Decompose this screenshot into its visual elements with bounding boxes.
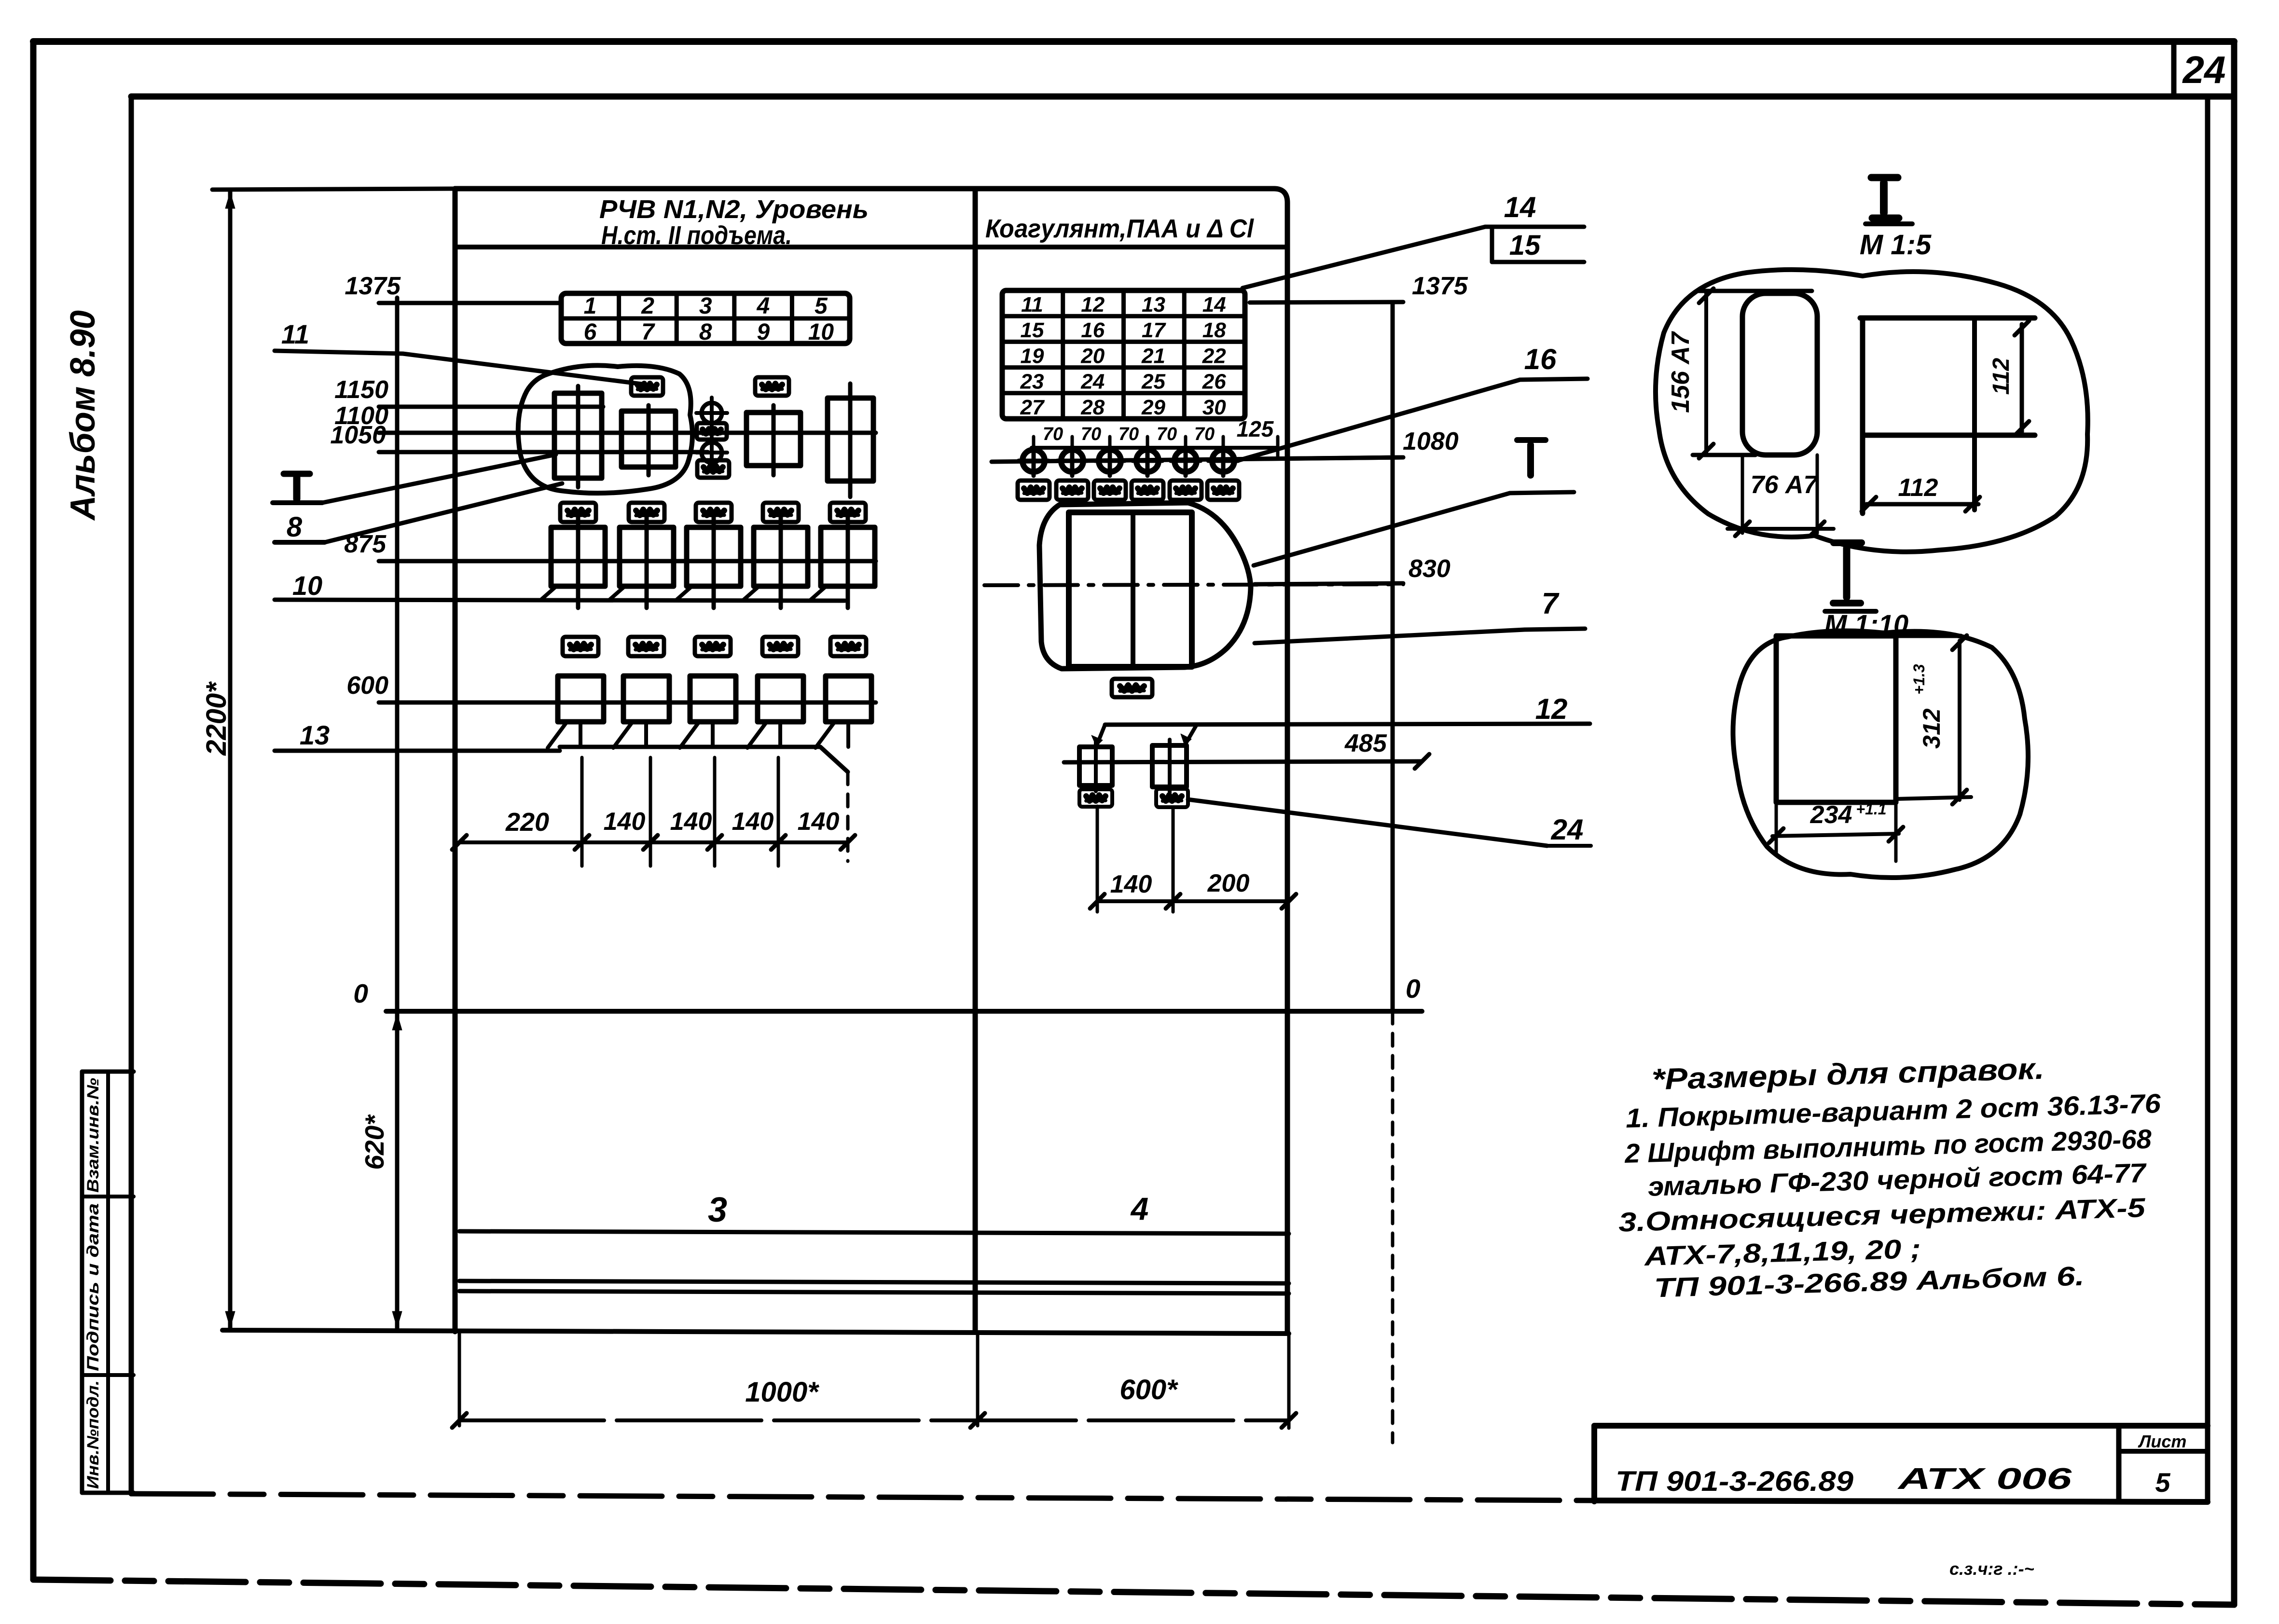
svg-text:140: 140 [604,808,646,836]
svg-text:70: 70 [1157,424,1177,444]
svg-text:4: 4 [756,293,770,319]
svg-text:+1.1: +1.1 [1856,800,1886,818]
svg-text:312: 312 [1918,708,1945,749]
svg-text:+1.3: +1.3 [1910,664,1928,694]
svg-text:12: 12 [1535,693,1568,725]
svg-text:70: 70 [1043,424,1063,444]
svg-text:16: 16 [1524,343,1557,375]
svg-text:234: 234 [1810,801,1852,829]
svg-text:26: 26 [1202,370,1226,394]
svg-text:24: 24 [2182,48,2226,91]
svg-text:220: 220 [505,808,549,837]
svg-text:13: 13 [1142,293,1165,317]
svg-text:17: 17 [1142,318,1166,342]
svg-text:112: 112 [1989,358,2014,395]
svg-text:70: 70 [1194,424,1215,444]
svg-text:140: 140 [1110,870,1152,898]
svg-text:4: 4 [1130,1191,1149,1226]
svg-text:140: 140 [670,808,712,836]
svg-text:29: 29 [1141,396,1165,419]
svg-text:0: 0 [1406,974,1421,1004]
svg-text:8: 8 [699,319,712,345]
svg-text:ТП 901-3-266.89: ТП 901-3-266.89 [1616,1466,1853,1497]
svg-text:Взам.инв.№: Взам.инв.№ [84,1078,102,1193]
svg-text:11: 11 [281,319,309,349]
svg-text:156 А7: 156 А7 [1667,331,1695,413]
svg-text:25: 25 [1141,370,1165,394]
svg-text:1375: 1375 [1412,272,1468,300]
svg-text:5: 5 [815,293,828,319]
svg-text:Альбом 8.90: Альбом 8.90 [64,310,102,521]
svg-text:3: 3 [708,1191,727,1229]
svg-text:РЧВ N1,N2, Уровень: РЧВ N1,N2, Уровень [599,195,869,224]
svg-text:24: 24 [1551,813,1584,846]
svg-text:Инв.№подл.: Инв.№подл. [84,1380,102,1489]
svg-text:70: 70 [1119,424,1139,444]
svg-text:1: 1 [584,293,597,319]
svg-text:1150: 1150 [334,376,388,404]
svg-text:3: 3 [699,293,712,319]
svg-text:1050: 1050 [330,421,386,449]
svg-text:70: 70 [1081,424,1101,444]
svg-text:15: 15 [1509,230,1541,261]
svg-text:620*: 620* [359,1114,389,1170]
svg-text:2200*: 2200* [201,681,232,756]
svg-text:200: 200 [1207,869,1250,897]
svg-text:112: 112 [1898,474,1938,502]
svg-text:19: 19 [1021,344,1044,368]
svg-text:1080: 1080 [1403,427,1459,455]
svg-text:600*: 600* [1119,1374,1178,1405]
svg-text:600: 600 [346,672,388,700]
svg-text:14: 14 [1504,191,1536,223]
svg-text:с.з.ч:г .:-~: с.з.ч:г .:-~ [1949,1559,2034,1579]
svg-text:10: 10 [808,319,834,345]
svg-text:140: 140 [798,808,840,836]
svg-text:13: 13 [300,720,330,750]
svg-text:14: 14 [1202,293,1226,317]
svg-text:15: 15 [1021,318,1044,342]
svg-text:18: 18 [1202,318,1226,342]
svg-text:1375: 1375 [345,272,401,300]
svg-text:125: 125 [1237,416,1274,441]
svg-text:24: 24 [1080,370,1105,394]
svg-text:8: 8 [287,511,303,543]
svg-text:7: 7 [641,319,655,345]
svg-text:485: 485 [1344,729,1387,757]
svg-text:20: 20 [1080,344,1105,368]
svg-text:10: 10 [292,570,322,601]
svg-text:Коагулянт,ПАА и Δ Сl: Коагулянт,ПАА и Δ Сl [985,214,1254,243]
svg-text:Н.ст. II подъема.: Н.ст. II подъема. [601,221,792,250]
svg-text:27: 27 [1020,396,1045,419]
svg-text:1000*: 1000* [745,1376,819,1408]
svg-text:Подпись и дата: Подпись и дата [84,1203,102,1371]
svg-text:6: 6 [584,319,597,345]
svg-text:7: 7 [1542,587,1560,620]
svg-text:М 1:5: М 1:5 [1860,229,1932,261]
svg-text:830: 830 [1409,555,1450,583]
svg-text:2: 2 [641,293,654,319]
svg-text:0: 0 [353,978,368,1008]
svg-text:28: 28 [1080,396,1105,419]
svg-text:140: 140 [732,808,774,836]
svg-text:21: 21 [1141,344,1165,368]
svg-text:76 А7: 76 А7 [1751,471,1819,499]
svg-text:АТХ 006: АТХ 006 [1897,1462,2072,1496]
svg-text:16: 16 [1081,318,1105,342]
svg-text:Лист: Лист [2138,1431,2187,1451]
svg-text:11: 11 [1021,293,1043,317]
svg-text:30: 30 [1202,396,1226,419]
svg-text:5: 5 [2155,1467,2170,1498]
svg-text:23: 23 [1020,370,1044,394]
svg-text:22: 22 [1202,344,1226,368]
svg-text:12: 12 [1081,293,1105,317]
svg-text:9: 9 [757,319,770,345]
